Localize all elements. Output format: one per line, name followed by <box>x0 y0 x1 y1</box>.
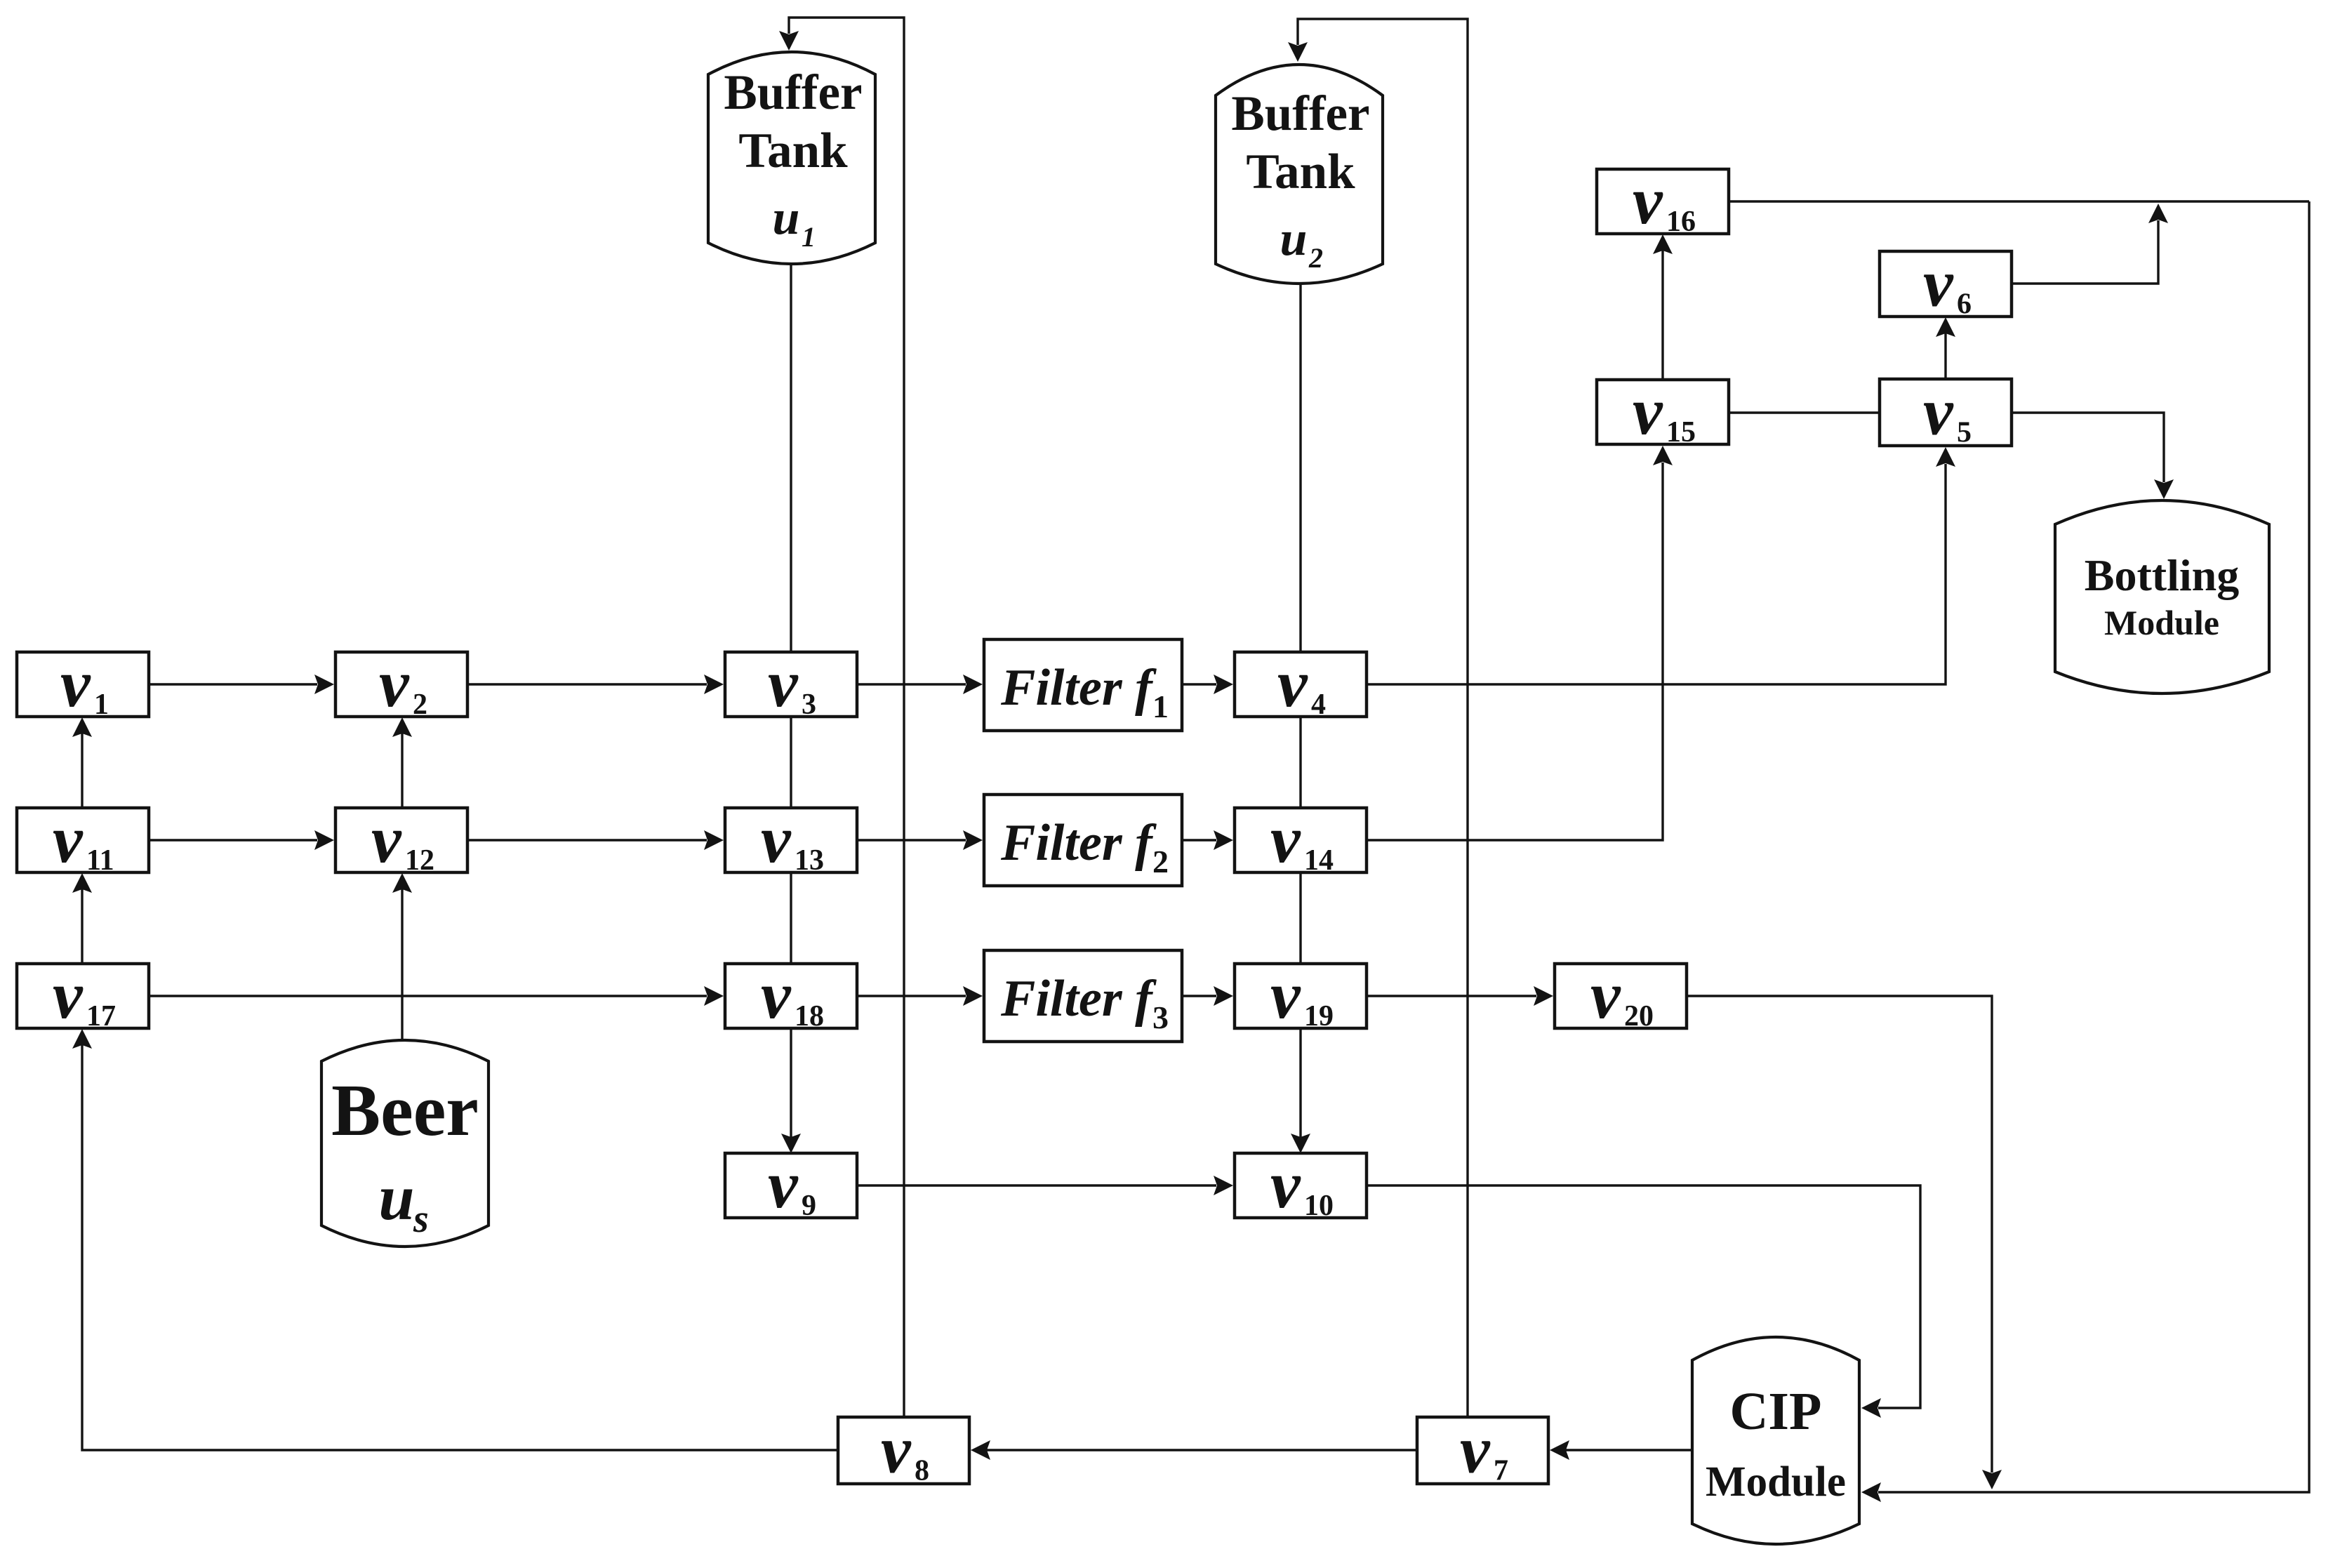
wire v12 to v13 <box>467 830 724 850</box>
wire v3 to v13 <box>790 717 792 808</box>
filter f2 <box>984 795 1182 886</box>
valve v17 <box>17 957 149 1032</box>
wire v7 to v8 <box>971 1440 1417 1460</box>
svg-text:1: 1 <box>94 689 109 721</box>
wire beer tank to v12 <box>392 873 412 1040</box>
svg-text:v: v <box>761 802 792 877</box>
valve v7 <box>1417 1412 1548 1487</box>
svg-text:16: 16 <box>1666 206 1696 238</box>
svg-text:v: v <box>1460 1412 1491 1487</box>
wire v11 to v1 <box>72 717 92 808</box>
wire v5 to v6 <box>1936 317 1955 379</box>
valve v1 <box>17 646 149 721</box>
valve v2 <box>335 646 467 721</box>
valve v18 <box>725 957 857 1032</box>
wire v12 to v2 <box>392 717 412 808</box>
svg-text:17: 17 <box>86 1000 116 1032</box>
wire v15 to v5 <box>1729 411 1880 413</box>
svg-text:1: 1 <box>1152 689 1169 724</box>
valve v20 <box>1555 957 1687 1032</box>
valve v13 <box>725 802 857 877</box>
valve v10 <box>1235 1147 1367 1222</box>
wire v4 to v5 <box>1367 447 1955 684</box>
wire filter f3 to v19 <box>1182 986 1233 1006</box>
wire v20 to CIP return line <box>1687 996 2002 1489</box>
svg-text:Tank: Tank <box>1246 145 1355 199</box>
svg-text:Filter f: Filter f <box>1000 659 1157 717</box>
svg-text:19: 19 <box>1304 1000 1334 1032</box>
wire v3 to filter f1 <box>857 675 983 694</box>
wire u1 to v3 <box>790 265 792 652</box>
wire v8 to v17 <box>72 1029 838 1450</box>
svg-text:v: v <box>768 646 799 721</box>
wire v18 to v9 <box>781 1028 801 1153</box>
valve v4 <box>1235 646 1367 721</box>
svg-text:9: 9 <box>802 1190 816 1222</box>
svg-text:3: 3 <box>802 689 816 721</box>
svg-text:11: 11 <box>86 844 114 877</box>
wire v8 return to u1 <box>779 18 904 1417</box>
svg-text:Beer: Beer <box>331 1069 479 1151</box>
filter f1 <box>984 639 1182 731</box>
wire v13 to filter f2 <box>857 830 983 850</box>
svg-text:v: v <box>53 802 84 877</box>
wire v1 to v2 <box>149 675 334 694</box>
svg-text:12: 12 <box>405 844 434 877</box>
svg-text:v: v <box>1270 957 1301 1032</box>
svg-text:Tank: Tank <box>738 124 848 178</box>
svg-text:Module: Module <box>2104 603 2219 642</box>
wire v16 merge to right rail <box>1729 200 2309 202</box>
valve v16 <box>1597 163 1729 238</box>
valve v5 <box>1880 374 2012 449</box>
svg-text:2: 2 <box>1152 844 1169 879</box>
right rail down to CIP <box>1861 201 2309 1502</box>
svg-text:4: 4 <box>1311 689 1326 721</box>
svg-text:v: v <box>881 1412 912 1487</box>
svg-text:v: v <box>379 646 410 721</box>
svg-text:18: 18 <box>795 1000 824 1032</box>
valve v11 <box>17 802 149 877</box>
svg-text:13: 13 <box>795 844 824 877</box>
wire v6 to right rail <box>2012 204 2168 284</box>
wire CIP to v7 <box>1550 1440 1692 1460</box>
svg-text:v: v <box>1277 646 1308 721</box>
valve v15 <box>1597 373 1729 449</box>
svg-text:8: 8 <box>915 1455 929 1487</box>
valve v8 <box>838 1412 969 1487</box>
wire filter f2 to v14 <box>1182 830 1233 850</box>
CIP module tank <box>1692 1337 1859 1544</box>
wire v17 to v18 <box>149 986 724 1006</box>
svg-text:15: 15 <box>1666 416 1696 449</box>
svg-text:u: u <box>1280 212 1308 266</box>
wire v13 to v18 <box>790 872 792 964</box>
wire v4 to v14 <box>1299 717 1301 808</box>
svg-text:2: 2 <box>413 689 427 721</box>
svg-text:v: v <box>1270 1147 1301 1222</box>
wire v17 to v11 <box>72 873 92 964</box>
valve v12 <box>335 802 467 877</box>
svg-text:v: v <box>60 646 91 721</box>
wire u2 to v4 <box>1299 284 1301 652</box>
wire v18 to filter f3 <box>857 986 983 1006</box>
svg-text:3: 3 <box>1152 999 1169 1035</box>
wire v15 to v16 <box>1653 234 1673 380</box>
valve v6 <box>1880 246 2012 321</box>
svg-text:s: s <box>413 1197 429 1241</box>
svg-text:v: v <box>53 957 84 1032</box>
beer source tank us <box>321 1040 489 1247</box>
svg-text:v: v <box>1590 957 1621 1032</box>
svg-text:Buffer: Buffer <box>724 65 862 120</box>
svg-text:u: u <box>378 1162 414 1233</box>
filter f3 <box>984 950 1182 1042</box>
svg-text:Module: Module <box>1706 1459 1846 1506</box>
valve v9 <box>725 1147 857 1222</box>
svg-text:v: v <box>768 1147 799 1222</box>
valve v3 <box>725 646 857 721</box>
svg-text:1: 1 <box>802 221 816 253</box>
wire v11 to v12 <box>149 830 334 850</box>
buffer tank u1 <box>708 52 875 264</box>
svg-text:6: 6 <box>1957 288 1972 321</box>
wire v2 to v3 <box>467 675 724 694</box>
svg-text:Buffer: Buffer <box>1231 86 1369 141</box>
wire v10 to CIP upper input <box>1367 1185 1920 1418</box>
svg-text:Bottling: Bottling <box>2085 550 2239 600</box>
svg-text:2: 2 <box>1308 242 1323 274</box>
svg-text:v: v <box>1633 373 1663 449</box>
svg-text:v: v <box>1923 374 1954 449</box>
bottling module tank <box>2055 500 2269 693</box>
wire v14 to v15 <box>1367 446 1673 840</box>
wire v9 to v10 <box>857 1176 1233 1195</box>
svg-text:Filter f: Filter f <box>1000 970 1157 1028</box>
svg-text:10: 10 <box>1304 1190 1334 1222</box>
svg-text:v: v <box>371 802 402 877</box>
buffer tank u2 <box>1216 65 1383 284</box>
wire v19 to v10 <box>1291 1028 1310 1153</box>
svg-text:14: 14 <box>1304 844 1334 877</box>
valve v14 <box>1235 802 1367 877</box>
svg-text:5: 5 <box>1957 417 1972 449</box>
svg-text:CIP: CIP <box>1730 1382 1822 1441</box>
svg-text:v: v <box>1270 802 1301 877</box>
wire filter f1 to v4 <box>1182 675 1233 694</box>
wire v7 return to u2 <box>1288 19 1468 1417</box>
svg-text:Filter f: Filter f <box>1000 814 1157 872</box>
svg-text:u: u <box>773 191 800 245</box>
svg-text:v: v <box>1923 246 1954 321</box>
svg-text:20: 20 <box>1624 1000 1654 1032</box>
valve v19 <box>1235 957 1367 1032</box>
wire v5 to bottling module <box>2012 413 2174 499</box>
svg-text:v: v <box>761 957 792 1032</box>
wire v14 to v19 <box>1299 872 1301 964</box>
svg-text:v: v <box>1633 163 1663 238</box>
svg-text:7: 7 <box>1494 1455 1508 1487</box>
wire v19 to v20 <box>1367 986 1553 1006</box>
